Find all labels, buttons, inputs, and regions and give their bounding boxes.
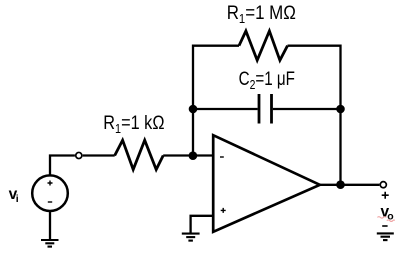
output open terminal — [380, 182, 386, 188]
node junction dot cap right — [336, 105, 345, 114]
svg-text:C2=1 μF: C2=1 μF — [239, 67, 295, 92]
capacitor C2 left plate — [258, 94, 261, 124]
wire source bottom to ground — [49, 212, 51, 240]
op-amp inverting input minus sign — [220, 156, 224, 158]
node junction dot output node — [336, 180, 345, 189]
wire capacitor row left — [193, 108, 258, 110]
wire source top to input terminal — [50, 156, 75, 176]
input open terminal — [76, 152, 82, 158]
wire resistor to op-amp inverting input — [163, 154, 213, 156]
op-amp non-inverting input plus sign — [221, 208, 226, 213]
node junction dot input node — [189, 151, 198, 160]
svg-text:R1=1 MΩ: R1=1 MΩ — [227, 1, 296, 26]
ground voltage source — [41, 240, 59, 247]
wire capacitor row right — [273, 108, 341, 110]
spellcheck red squiggle under vo — [377, 217, 394, 222]
svg-text:R1=1 kΩ: R1=1 kΩ — [103, 112, 164, 137]
output plus sign — [382, 192, 389, 199]
svg-text:i: i — [16, 193, 19, 205]
output minus sign — [382, 225, 387, 227]
ground output — [377, 233, 394, 240]
voltage source plus sign — [48, 181, 53, 186]
ground op-amp non-inverting — [182, 234, 200, 241]
op-amp U1 triangle — [213, 135, 320, 232]
voltage source minus sign — [48, 201, 52, 203]
voltage source vi circle — [32, 175, 68, 211]
wire feedback left vertical and top-left segment — [193, 46, 239, 156]
wire feedback top-right segment and right vertical — [288, 46, 341, 185]
resistor R1 input 1 kohm zigzag — [115, 140, 164, 169]
wire non-inverting input to ground — [191, 216, 213, 233]
resistor R1 feedback 1 Mohm zigzag — [239, 31, 288, 60]
capacitor C2 right plate — [270, 94, 273, 124]
node junction dot cap left — [189, 105, 198, 114]
wire terminal to resistor — [83, 154, 115, 156]
wire op-amp output — [320, 184, 380, 186]
